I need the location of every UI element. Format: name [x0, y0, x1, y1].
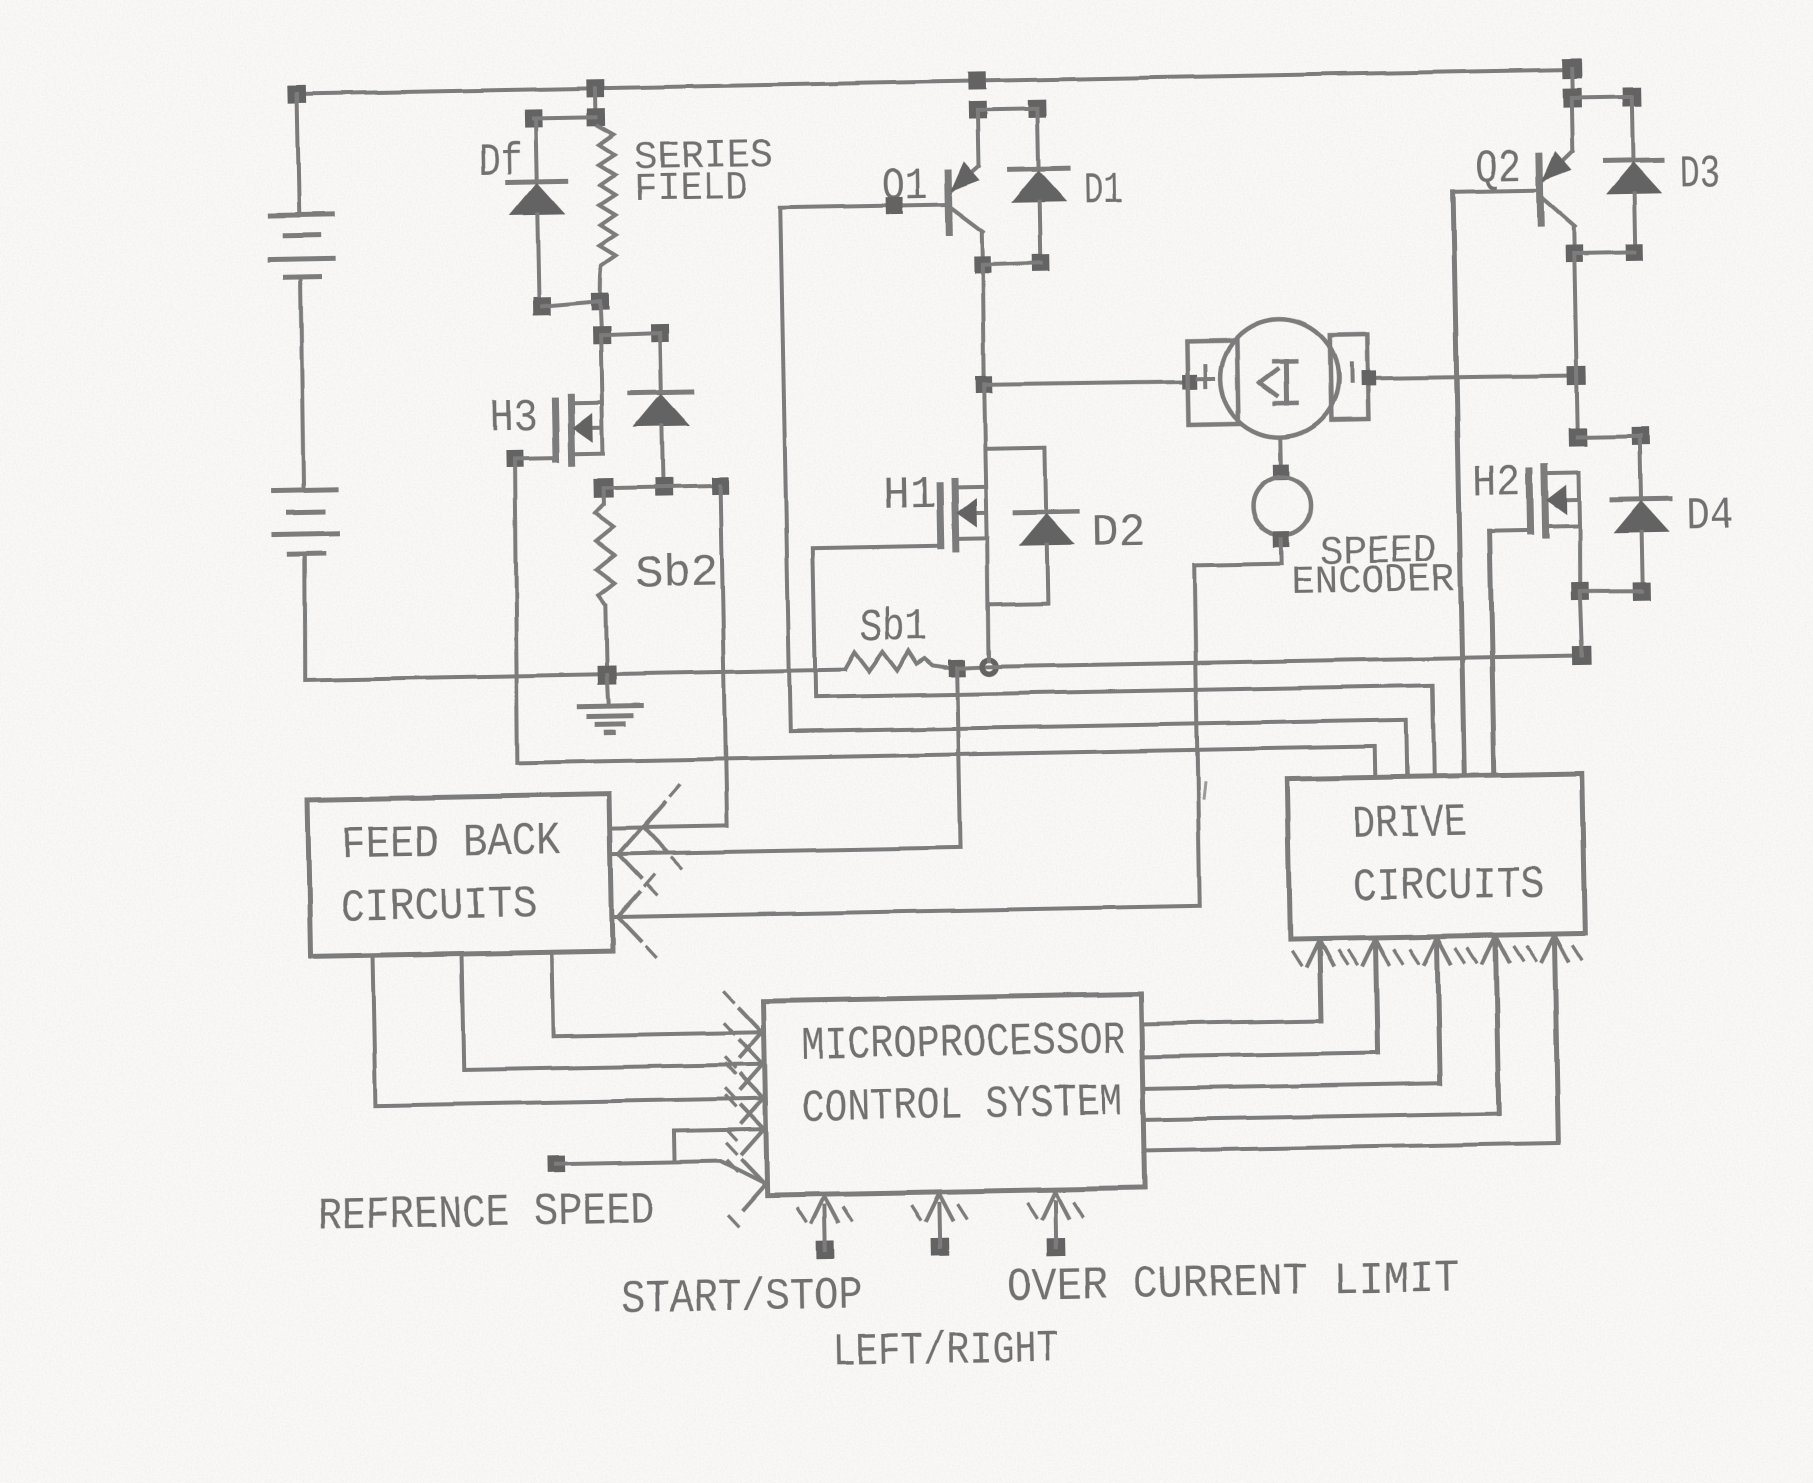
wire top supply rail	[297, 70, 1572, 94]
terminal left/right	[931, 1238, 949, 1256]
wire drive bottom entry 4	[1495, 941, 1498, 1113]
wire motor to encoder	[1279, 437, 1284, 472]
wire Df bottom connection	[542, 301, 600, 306]
motor plus mark	[1197, 365, 1213, 386]
svg-text:FIELD: FIELD	[633, 166, 748, 213]
svg-text:H2: H2	[1472, 458, 1521, 510]
node H2 source	[1571, 582, 1589, 600]
node H2 drain junction	[1569, 428, 1587, 446]
wire H2 source to D4	[1580, 590, 1642, 592]
diode Df	[506, 118, 568, 307]
wire center leg to H1 drain	[983, 449, 988, 487]
wire fb out3 run	[553, 1032, 764, 1036]
arrow into feedback 3	[617, 875, 656, 958]
wire H1 gate lead	[813, 546, 941, 548]
wire D4 top connection	[1578, 436, 1641, 437]
wire feedback sense 3 run	[612, 906, 1200, 917]
wire stub bus to field top	[594, 88, 599, 117]
wire Q1 base run to drive	[790, 720, 1406, 732]
wire Q2 emitter to D3	[1574, 252, 1634, 253]
diode D4	[1611, 436, 1672, 592]
wire feedback sense 1 drop	[721, 486, 728, 826]
wire feedback sense 2 run	[611, 847, 961, 854]
wire D2 bottom branch	[989, 604, 1048, 605]
wire microprocessor out3 run	[1143, 1083, 1440, 1089]
wire encoder down	[1280, 539, 1284, 563]
wire H1 gate run to drive	[816, 685, 1433, 697]
motor brush left	[1187, 340, 1239, 425]
arrow into microprocessor 4	[726, 1088, 765, 1171]
wire reference speed lead	[557, 1162, 675, 1164]
wire H3 gate stub	[515, 456, 556, 461]
wire Q1 base lead	[780, 205, 948, 208]
arrow into microprocessor 1	[724, 991, 763, 1074]
wire to H3 diode top	[602, 333, 660, 335]
wire D2 top branch	[985, 448, 1045, 449]
svg-text:CONTROL SYSTEM: CONTROL SYSTEM	[801, 1077, 1123, 1134]
wire bus segment	[957, 667, 989, 669]
wire Q2 base drop	[1453, 192, 1464, 776]
node Q1 emitter	[974, 256, 991, 273]
wire H1 source down	[987, 539, 990, 661]
wire drive bottom entry 3	[1437, 942, 1440, 1083]
wire Q2 top stub	[1570, 69, 1575, 98]
node series field top	[587, 108, 605, 126]
svg-text:MICROPROCESSOR: MICROPROCESSOR	[801, 1015, 1126, 1072]
wire drive top entry 3	[1433, 685, 1435, 776]
arrow into drive 4	[1468, 936, 1522, 963]
wire H3 gate run to drive	[518, 746, 1375, 762]
wire encoder drop to feedback	[1193, 565, 1201, 906]
stray mark	[1203, 783, 1205, 798]
node Q1 base	[886, 197, 903, 214]
wire ground stub	[607, 675, 609, 706]
wire encoder left	[1194, 563, 1282, 565]
wire Q2 collector	[1571, 98, 1572, 152]
terminal start/stop	[816, 1241, 834, 1259]
wire fb out2 run	[464, 1064, 765, 1070]
node Df bottom	[533, 297, 551, 315]
wire between batteries	[299, 277, 304, 490]
wire Q1 emitter down	[981, 265, 984, 385]
wire microprocessor out5 run	[1144, 1143, 1558, 1151]
wire reference jog up	[672, 1131, 677, 1162]
arrow into microprocessor 2	[725, 1023, 764, 1106]
motor minus mark	[1349, 364, 1353, 382]
svg-text:REFRENCE SPEED: REFRENCE SPEED	[317, 1185, 655, 1242]
wire bottom bus right segment	[989, 655, 1582, 666]
wire feedback sense 2 drop	[957, 668, 960, 847]
svg-text:FEED BACK: FEED BACK	[341, 816, 561, 871]
svg-text:D4: D4	[1686, 491, 1734, 543]
node field-H3 junction	[592, 326, 610, 344]
block microprocessor control system	[763, 994, 1145, 1195]
node encoder bottom	[1274, 531, 1290, 547]
wire drive top entry 1	[1373, 746, 1378, 777]
inductor series field winding	[597, 125, 617, 301]
node D4 top	[1632, 427, 1650, 445]
svg-text:Sb1: Sb1	[860, 602, 928, 654]
svg-text:Sb2: Sb2	[635, 548, 719, 601]
wire bus to Sb1 right node	[945, 667, 957, 668]
wire motor right lead	[1368, 374, 1577, 379]
wire over current up	[1053, 1202, 1058, 1247]
wire motor left lead	[984, 381, 1190, 386]
svg-text:CIRCUITS: CIRCUITS	[340, 880, 538, 935]
wire Df top connection	[533, 117, 596, 118]
transistor H2 (MOSFET)	[1529, 465, 1579, 535]
terminal reference speed	[548, 1156, 565, 1173]
svg-text:CIRCUITS: CIRCUITS	[1352, 859, 1545, 914]
svg-text:D1: D1	[1084, 165, 1124, 217]
wire center leg to D2 branch	[984, 385, 985, 449]
node top-right above Q2	[1562, 58, 1582, 78]
node Q2 emitter	[1566, 245, 1583, 262]
block feed back circuits	[308, 794, 613, 957]
wire H2 source down	[1579, 525, 1581, 591]
battery (lower cells)	[274, 489, 338, 554]
motor symbol chevron	[1259, 369, 1277, 395]
arrow into feedback 1	[642, 786, 681, 869]
battery (upper cells)	[269, 214, 333, 277]
wire fb out1 drop	[373, 956, 376, 1106]
wire H3 gate drop	[512, 459, 521, 763]
resistor Sb2	[595, 504, 615, 605]
node D4 bottom	[1633, 582, 1651, 600]
diode D1	[1008, 108, 1069, 257]
motor symbol bar	[1274, 361, 1297, 403]
wire H2 gate lead	[1490, 528, 1531, 533]
wire right leg to H2	[1577, 375, 1578, 437]
wire microprocessor out2 run	[1143, 1052, 1378, 1057]
node Df top	[524, 109, 542, 127]
wire H1 gate drop	[813, 548, 816, 697]
wire start/stop up	[822, 1206, 827, 1250]
wire Sb2 to bus	[606, 605, 607, 675]
node motor left tap	[975, 376, 992, 393]
block drive circuits	[1287, 773, 1585, 939]
resistor Sb1	[845, 651, 945, 672]
node above Q1	[968, 72, 986, 90]
arrow into feedback 2	[618, 812, 657, 895]
wire Q1 collector	[977, 110, 978, 166]
arrow into drive 2	[1348, 938, 1402, 965]
node H3 diode bottom	[654, 478, 672, 496]
node motor right terminal	[1361, 371, 1376, 386]
svg-text:D3: D3	[1679, 149, 1720, 201]
wire fb out3 drop	[552, 952, 554, 1036]
svg-text:START/STOP: START/STOP	[621, 1270, 863, 1326]
wire H2 gate drop	[1490, 531, 1495, 775]
wire feedback sense 1 run	[610, 826, 727, 828]
terminal over current limit	[1047, 1237, 1065, 1255]
wire field bottom stub	[600, 301, 602, 335]
wire D3 top connection	[1572, 96, 1632, 97]
transistor H3 (MOSFET)	[555, 396, 603, 463]
node Q2 collector junction	[1563, 88, 1582, 107]
arrow into microprocessor 5	[727, 1143, 766, 1226]
diode D3	[1603, 96, 1664, 246]
svg-text:DRIVE: DRIVE	[1352, 798, 1468, 851]
arrow into microprocessor 3	[726, 1057, 765, 1140]
motor brush right	[1330, 335, 1369, 421]
arrow into drive 5	[1527, 934, 1581, 961]
wire Q1 base drop	[780, 208, 790, 732]
node H1 source junction (ring)	[982, 660, 996, 674]
node Q1 collector junction	[968, 101, 986, 119]
wire reference upper run	[674, 1129, 766, 1131]
node top-left battery junction	[288, 85, 306, 103]
wire battery stub	[297, 94, 299, 215]
wire drive bottom entry 5	[1554, 940, 1558, 1143]
svg-text:OVER CURRENT LIMIT: OVER CURRENT LIMIT	[1007, 1254, 1460, 1314]
node D3 bottom	[1626, 244, 1643, 261]
node H3 row to feedback tap	[712, 477, 729, 494]
arrow over current	[1028, 1191, 1082, 1218]
wire fb out1 run	[375, 1098, 765, 1105]
node above series field	[587, 79, 605, 97]
wire reference lower run	[675, 1160, 763, 1184]
wire left/right up	[937, 1204, 942, 1247]
wire Q1 emitter to D1	[982, 263, 1040, 265]
wire microprocessor out1 run	[1142, 1021, 1321, 1024]
node encoder top	[1273, 464, 1289, 480]
svg-text:Q2: Q2	[1475, 144, 1522, 196]
node right leg motor junction	[1567, 366, 1586, 385]
arrow into drive 3	[1410, 937, 1464, 964]
node D3 top	[1623, 87, 1642, 106]
wire drive bottom entry 1	[1319, 945, 1320, 1021]
wire drive bottom entry 2	[1375, 943, 1377, 1052]
wire Q2 emitter down	[1574, 254, 1576, 376]
wire battery negative down-left	[303, 554, 307, 680]
wire fb out2 drop	[462, 954, 464, 1070]
wire D1 top connection	[977, 109, 1037, 110]
node D1 bottom	[1032, 254, 1049, 271]
wire Q2 base lead	[1453, 190, 1540, 192]
wire microprocessor out4 run	[1144, 1113, 1499, 1120]
transistor Q1	[947, 162, 983, 260]
wire bottom negative bus left segment	[305, 670, 845, 680]
node D1 top	[1028, 100, 1046, 118]
wire drive top entry 2	[1406, 720, 1407, 777]
transistor Q2	[1539, 152, 1575, 249]
svg-text:Df: Df	[478, 137, 523, 189]
ground	[579, 706, 641, 733]
node H3 source junction	[593, 478, 613, 498]
wire H3 source row	[604, 486, 721, 488]
diode H3 body diode	[629, 332, 694, 480]
speed encoder	[1253, 477, 1312, 536]
svg-text:ENCODER: ENCODER	[1291, 558, 1455, 606]
motor armature	[1219, 318, 1339, 438]
svg-text:H3: H3	[490, 392, 538, 444]
wire H3 source to Sb2	[602, 488, 606, 504]
arrow into drive 1	[1292, 939, 1346, 966]
node H3 body diode top	[650, 324, 668, 342]
node H3 gate	[506, 450, 523, 467]
diode D2	[1014, 447, 1079, 604]
node Sb1 right (current sense tap)	[948, 660, 965, 677]
arrow start/stop	[797, 1196, 851, 1223]
svg-text:D2: D2	[1091, 507, 1146, 559]
node bottom-right bus end	[1572, 646, 1591, 665]
node series field bottom	[591, 292, 609, 310]
node motor left terminal	[1182, 374, 1197, 389]
svg-text:H1: H1	[882, 470, 936, 522]
transistor H1 (MOSFET)	[940, 481, 987, 550]
arrow left/right	[912, 1193, 966, 1220]
wire H3 drain	[601, 335, 602, 402]
node ground junction	[598, 665, 617, 684]
wire H2 source to bus	[1580, 591, 1582, 655]
svg-text:LEFT/RIGHT: LEFT/RIGHT	[833, 1324, 1060, 1379]
